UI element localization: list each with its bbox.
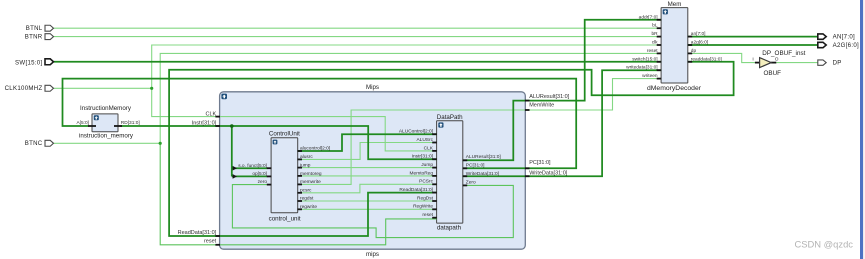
svg-text:CLK100MHZ: CLK100MHZ <box>5 85 43 92</box>
Mem pin writedata stub <box>657 69 662 71</box>
svg-text:Zero: Zero <box>466 180 476 186</box>
datapath pin RegDst stub <box>432 200 437 202</box>
Mips pin MemWrite stub <box>525 109 530 111</box>
datapath pin reset stub <box>432 217 437 219</box>
input port BTNC <box>45 140 54 146</box>
dMemoryDecoder block body <box>661 8 688 83</box>
dMemoryDecoder hierarchy icon <box>663 9 668 14</box>
wire Mem readdata bus to Mips ReadData and datapath ReadData <box>169 62 734 236</box>
svg-text:zero: zero <box>258 179 268 185</box>
datapath pin CLK stub <box>432 150 437 152</box>
datapath pin ALUResult stub <box>463 159 468 161</box>
Mem pin writeen stub <box>657 78 662 80</box>
svg-text:reset: reset <box>204 238 217 244</box>
right edge strip <box>863 0 865 259</box>
Mem pin addr stub <box>657 19 662 21</box>
svg-text:MemWrite: MemWrite <box>529 103 554 109</box>
input port BTNL <box>45 25 54 31</box>
svg-text:memwrite: memwrite <box>300 179 321 185</box>
svg-text:memtoreg: memtoreg <box>300 171 322 177</box>
wire Mem a2g bus to A2G port <box>688 44 818 46</box>
op tap arrowhead <box>233 174 237 179</box>
node Instr junction <box>230 124 234 128</box>
Mem pin readdata stub <box>688 61 693 63</box>
svg-text:an[7:0]: an[7:0] <box>691 31 706 37</box>
wire control_unit regdst to datapath RegDst <box>298 200 437 202</box>
Mips pin ReadData stub <box>215 235 220 237</box>
wire control_unit alusrc to datapath ALUSrc <box>298 143 437 160</box>
input port CLK100MHZ <box>45 85 54 91</box>
instruction_memory pin RD[31:0] stub <box>114 125 122 127</box>
svg-text:reset: reset <box>647 48 658 54</box>
control_unit pin memwrite stub <box>297 183 302 185</box>
svg-text:control_unit: control_unit <box>269 216 301 223</box>
wire datapath Zero to control_unit zero <box>232 185 513 238</box>
svg-text:BTNC: BTNC <box>25 140 43 147</box>
datapath pin RegWrite stub <box>432 208 437 210</box>
svg-text:ALUControl[2:0]: ALUControl[2:0] <box>399 129 433 135</box>
funct tap arrowhead <box>233 166 237 171</box>
svg-text:clk: clk <box>652 40 658 46</box>
wire Instr op tap <box>232 175 267 177</box>
svg-text:ReadData[31:0]: ReadData[31:0] <box>399 187 433 193</box>
buffer DP_OBUF_inst body OBUF <box>760 58 772 68</box>
svg-text:RD[31:0]: RD[31:0] <box>121 120 140 126</box>
control_unit pin zero stub <box>267 184 272 186</box>
control_unit pin regdst stub <box>297 200 302 202</box>
module Mips block body <box>220 92 526 249</box>
svg-text:Jump: Jump <box>421 162 433 168</box>
svg-text:ReadData[31:0]: ReadData[31:0] <box>178 230 217 236</box>
svg-text:regdst: regdst <box>300 196 314 202</box>
svg-text:PCSrc: PCSrc <box>419 179 433 185</box>
svg-text:pcsrc: pcsrc <box>300 188 312 194</box>
wire CLK100MHZ trunk <box>54 87 152 89</box>
Mips pin CLK stub <box>215 116 220 118</box>
datapath pin Instr stub <box>432 158 437 160</box>
svg-text:dMemoryDecoder: dMemoryDecoder <box>647 85 702 92</box>
datapath pin MemtoReg stub <box>432 175 437 177</box>
svg-text:dp: dp <box>691 48 697 54</box>
svg-text:MemtoReg: MemtoReg <box>410 170 434 176</box>
Mem pin bL stub <box>657 27 662 29</box>
control_unit pin alucontrol stub <box>297 150 302 152</box>
svg-text:InstructionMemory: InstructionMemory <box>80 105 132 112</box>
svg-text:RegDst: RegDst <box>417 195 434 201</box>
wire CLK100MHZ to Mips CLK and datapath CLK <box>152 88 437 151</box>
node CLK junction <box>150 87 153 90</box>
wire Instr funct tap <box>232 167 267 169</box>
instruction_memory block body <box>92 114 118 132</box>
wire Mem an bus to AN port <box>688 36 818 38</box>
Mips pin reset stub <box>215 244 220 246</box>
datapath pin Jump stub <box>432 167 437 169</box>
svg-text:A[5:0]: A[5:0] <box>76 120 89 126</box>
wire control_unit regwrite to datapath RegWrite <box>298 208 437 210</box>
svg-text:AN[7:0]: AN[7:0] <box>833 34 855 41</box>
output port A2G[6:0] <box>818 42 826 47</box>
datapath pin ALUSrc stub <box>432 142 437 144</box>
wire instruction_memory RD bus to Mips Instr and datapath Instr <box>121 126 437 159</box>
svg-text:mips: mips <box>366 251 379 258</box>
wire Mem dp to OBUF input <box>688 53 755 62</box>
buffer DP_OBUF_inst output stub <box>771 62 777 64</box>
wire control_unit memtoreg to datapath MemtoReg <box>298 175 437 177</box>
wire BTNC to Mips reset and datapath reset <box>160 143 436 245</box>
svg-text:OBUF: OBUF <box>764 70 782 77</box>
scrollbar blue line <box>860 0 863 259</box>
Mem pin clk stub <box>657 44 662 46</box>
Mem pin an stub <box>688 36 693 38</box>
svg-text:alusrc: alusrc <box>300 154 313 160</box>
svg-text:s.o. funct[5:0]: s.o. funct[5:0] <box>238 163 267 169</box>
wire BTNC to Mem reset <box>160 53 661 143</box>
control_unit pin alusrc stub <box>297 158 302 160</box>
svg-text:CSDN @qzdc: CSDN @qzdc <box>795 238 854 249</box>
input port BTNR <box>45 34 54 40</box>
svg-text:BTNL: BTNL <box>26 25 43 32</box>
control_unit pin regwrite stub <box>297 208 302 210</box>
svg-text:DataPath: DataPath <box>437 114 463 121</box>
wire CLK100MHZ to Mem clk <box>152 45 661 88</box>
svg-text:alucontrol[2:0]: alucontrol[2:0] <box>300 146 330 152</box>
control_unit pin memtoreg stub <box>297 175 302 177</box>
control_unit pin jump stub <box>297 167 302 169</box>
wire control_unit alucontrol bus to datapath ALUControl <box>298 134 437 151</box>
datapath pin ReadData stub <box>432 192 437 194</box>
svg-text:addr[7:0]: addr[7:0] <box>639 14 658 20</box>
svg-text:O: O <box>775 56 779 62</box>
wire BTNC trunk <box>54 142 161 144</box>
control_unit pin op stub <box>267 175 272 177</box>
datapath pin PCSrc stub <box>432 183 437 185</box>
Mips pin ALUResult stub <box>525 100 530 102</box>
wire control_unit memwrite to Mips MemWrite to Mem writeen <box>298 79 661 185</box>
wire BTNL to Mem bL <box>54 27 662 29</box>
node BTNC junction <box>159 142 162 145</box>
Mem pin reset stub <box>657 52 662 54</box>
module Mips hierarchy icon <box>221 94 227 100</box>
Mem pin switch stub <box>657 61 662 63</box>
svg-text:jump: jump <box>299 163 311 169</box>
datapath pin ALUControl stub <box>432 133 437 135</box>
Mem pin a2g stub <box>688 44 693 46</box>
svg-text:a2g[6:0]: a2g[6:0] <box>691 40 708 46</box>
control_unit pin pcsrc stub <box>297 192 302 194</box>
svg-text:readdata[31:0]: readdata[31:0] <box>691 56 722 62</box>
Mem pin dp stub <box>688 52 693 54</box>
wire Instr bus branch to control_unit <box>231 126 233 176</box>
svg-text:instruction_memory: instruction_memory <box>79 133 134 140</box>
svg-text:BTNR: BTNR <box>25 34 43 41</box>
wire datapath WriteData bus to Mem writedata <box>463 70 661 176</box>
svg-text:A2G[6:0]: A2G[6:0] <box>833 42 859 49</box>
wire BTNR to Mem bR <box>54 36 662 38</box>
output port DP <box>818 60 826 65</box>
svg-text:reset: reset <box>422 212 433 218</box>
svg-text:SW[15:0]: SW[15:0] <box>15 59 42 66</box>
Mips pin WriteData stub <box>525 175 530 177</box>
svg-text:bR: bR <box>651 31 658 37</box>
svg-text:regwrite: regwrite <box>300 204 317 210</box>
svg-text:ALUResult[31:0]: ALUResult[31:0] <box>529 94 570 100</box>
control_unit block body <box>271 138 298 213</box>
wire OBUF output to DP port <box>776 62 818 64</box>
svg-text:bL: bL <box>652 23 658 29</box>
svg-text:RegWrite: RegWrite <box>413 204 433 210</box>
wire SW bus to Mem switch <box>54 61 661 63</box>
svg-text:Instr[31:0]: Instr[31:0] <box>192 120 217 126</box>
Mips pin PC stub <box>525 167 530 169</box>
wire Mips ALUResult bus to Mem addr <box>463 20 661 161</box>
wire control_unit pcsrc to datapath PCSrc <box>298 184 437 193</box>
input port SW[15:0] <box>45 59 54 65</box>
Mips pin Instr stub <box>215 125 220 127</box>
svg-text:DP_OBUF_inst: DP_OBUF_inst <box>762 50 805 57</box>
datapath pin PC stub <box>463 167 468 169</box>
datapath hierarchy icon <box>438 122 443 127</box>
datapath block body <box>437 121 463 223</box>
datapath pin WriteData stub <box>463 175 468 177</box>
svg-text:ALUResult[31:0]: ALUResult[31:0] <box>466 154 501 160</box>
svg-text:ControlUnit: ControlUnit <box>269 131 300 138</box>
svg-text:writeen: writeen <box>642 73 658 79</box>
svg-text:I: I <box>752 56 753 62</box>
svg-text:DP: DP <box>833 60 842 67</box>
svg-text:PC[31:0]: PC[31:0] <box>466 163 485 169</box>
buffer DP_OBUF_inst input stub <box>755 62 760 64</box>
instruction_memory hierarchy icon <box>94 115 99 120</box>
wire control_unit jump to datapath Jump <box>298 167 437 169</box>
svg-text:writedata[31:0]: writedata[31:0] <box>626 65 657 71</box>
svg-text:op[5:0]: op[5:0] <box>252 171 267 177</box>
control_unit hierarchy icon <box>273 140 278 145</box>
instruction_memory pin A[5:0] stub <box>88 125 96 127</box>
svg-text:WriteData[31:0]: WriteData[31:0] <box>466 171 499 177</box>
output port AN[7:0] <box>818 34 826 39</box>
control_unit pin funct stub <box>267 167 272 169</box>
svg-text:Mem: Mem <box>668 1 682 8</box>
svg-text:Mips: Mips <box>366 84 379 91</box>
datapath pin Zero stub <box>463 184 468 186</box>
svg-text:Instr[31:0]: Instr[31:0] <box>412 154 433 160</box>
svg-text:CLK: CLK <box>205 112 216 118</box>
svg-text:switch[15:0]: switch[15:0] <box>632 56 657 62</box>
svg-text:CLK: CLK <box>424 145 434 151</box>
svg-text:ALUSrc: ALUSrc <box>416 137 433 143</box>
svg-text:WriteData[31:0]: WriteData[31:0] <box>529 170 568 176</box>
svg-text:PC[31:0]: PC[31:0] <box>529 160 551 166</box>
svg-text:datapath: datapath <box>437 225 462 232</box>
wire datapath PC bus to instruction_memory A <box>63 79 577 169</box>
Mem pin bR stub <box>657 36 662 38</box>
